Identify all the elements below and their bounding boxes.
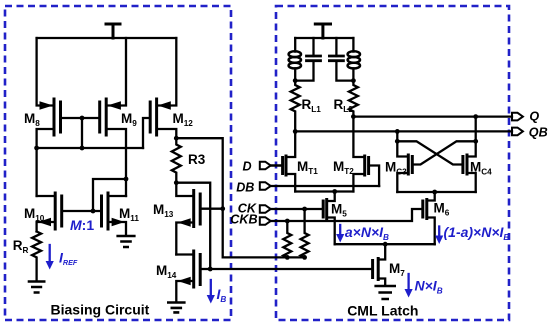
- inductor L2: [348, 38, 360, 81]
- node dot MC3 drain QB: [395, 129, 400, 134]
- resistor R3: [172, 138, 181, 183]
- svg-text:CKB: CKB: [230, 213, 257, 227]
- resistor RR: [32, 232, 41, 282]
- wire diode tie M11: [93, 179, 126, 211]
- wire rail bias: [37, 37, 177, 39]
- wire QB: [295, 130, 512, 132]
- node dot R3 bottom: [174, 180, 179, 185]
- svg-text:CML Latch: CML Latch: [347, 302, 418, 318]
- current arrow N IB: [405, 274, 413, 298]
- port CKB: [260, 209, 423, 225]
- port DB: [260, 182, 379, 190]
- port CK: [260, 205, 323, 213]
- node dot CK-M5 resistor: [302, 207, 307, 212]
- node dot QB-RL1: [293, 129, 298, 134]
- current arrow 1-a N IB: [435, 227, 443, 245]
- wire rail latch: [295, 37, 353, 39]
- node dot M13 gate: [220, 206, 225, 211]
- svg-text:D: D: [243, 159, 252, 173]
- node dot tail MT: [332, 189, 337, 194]
- capacitor C1: [295, 38, 320, 81]
- ground M7: [376, 286, 395, 299]
- node dot gate M8-M9: [80, 116, 85, 121]
- current arrow IB: [207, 280, 215, 304]
- node dot tank1: [293, 78, 298, 83]
- node dot MC4 drain Q: [473, 114, 478, 119]
- current arrow a N IB: [336, 225, 344, 243]
- node dot mirror wire left: [34, 146, 39, 151]
- node dot M9 drain branch: [124, 177, 129, 182]
- wire R3 bottom to M14 gate column: [176, 183, 210, 269]
- supply VDD latch: [315, 24, 330, 38]
- node dot M14 gate: [208, 267, 213, 272]
- transistor M9: [82, 38, 126, 196]
- svg-text:Biasing Circuit: Biasing Circuit: [51, 301, 150, 317]
- wire tail MT pair: [295, 190, 353, 192]
- svg-text:DB: DB: [236, 180, 254, 194]
- transistor M12: [143, 38, 176, 148]
- resistor bias CKB: [283, 221, 291, 257]
- transistor M7: [373, 244, 386, 285]
- transistor M10: [37, 193, 62, 232]
- svg-text:R3: R3: [188, 152, 206, 167]
- svg-text:M:1: M:1: [70, 217, 94, 233]
- wire R3 top to M13 gate column: [176, 138, 304, 257]
- transistor M6: [423, 192, 435, 244]
- capacitor C2: [329, 38, 353, 81]
- node dot gate M10-M11: [91, 209, 96, 214]
- resistor RL1: [291, 81, 300, 132]
- inductor L1: [289, 38, 301, 81]
- resistor RL2: [349, 81, 358, 117]
- svg-text:QB: QB: [529, 126, 548, 140]
- ground RR: [29, 282, 44, 293]
- current arrow IREF: [46, 245, 54, 270]
- svg-text:Q: Q: [529, 109, 539, 123]
- wire gate node PMOS mirror: [37, 118, 143, 148]
- transistor MT2: [353, 117, 379, 192]
- node dot mirror wire mid: [80, 146, 85, 151]
- wire bias to M7 gate: [210, 268, 372, 270]
- wire tail MC pair: [397, 191, 475, 193]
- port Q: [512, 113, 523, 121]
- transistor M8: [37, 38, 82, 148]
- CML latch box: [276, 6, 509, 320]
- node dot Q-RL2: [351, 114, 356, 119]
- biasing circuit box: [5, 6, 231, 320]
- transistor M14: [176, 251, 210, 302]
- transistor MC4: [397, 117, 475, 192]
- wire M5 M6 sources: [335, 243, 435, 245]
- port QB: [512, 128, 523, 136]
- wire Q: [353, 115, 512, 117]
- transistor M11: [102, 193, 127, 236]
- transistor M5: [323, 192, 335, 245]
- transistor MT1: [272, 131, 295, 191]
- node dot res CK bottom: [302, 255, 307, 260]
- svg-text:(1-a)×N×IB: (1-a)×N×IB: [444, 224, 510, 242]
- node dot tank2: [351, 78, 356, 83]
- ground M14: [168, 303, 184, 313]
- resistor bias CK: [301, 209, 309, 257]
- transistor M13: [176, 183, 222, 255]
- transistor MC3: [397, 131, 475, 192]
- node dot MC4 cross: [473, 139, 478, 144]
- node dot MC3 cross: [395, 139, 400, 144]
- wire gate M10-M11: [62, 210, 102, 212]
- node dot tail MC: [432, 190, 437, 195]
- supply VDD bias: [106, 24, 120, 38]
- node dot CKB resistor: [285, 219, 290, 224]
- port D: [260, 162, 283, 170]
- node dot M7 drain: [383, 242, 388, 247]
- svg-text:a×N×IB: a×N×IB: [345, 224, 389, 242]
- node dot M12 drain R3: [174, 136, 179, 141]
- node dot res CKB bottom: [285, 255, 290, 260]
- wire M8 drain to M10: [35, 148, 37, 196]
- ground M11: [118, 236, 135, 247]
